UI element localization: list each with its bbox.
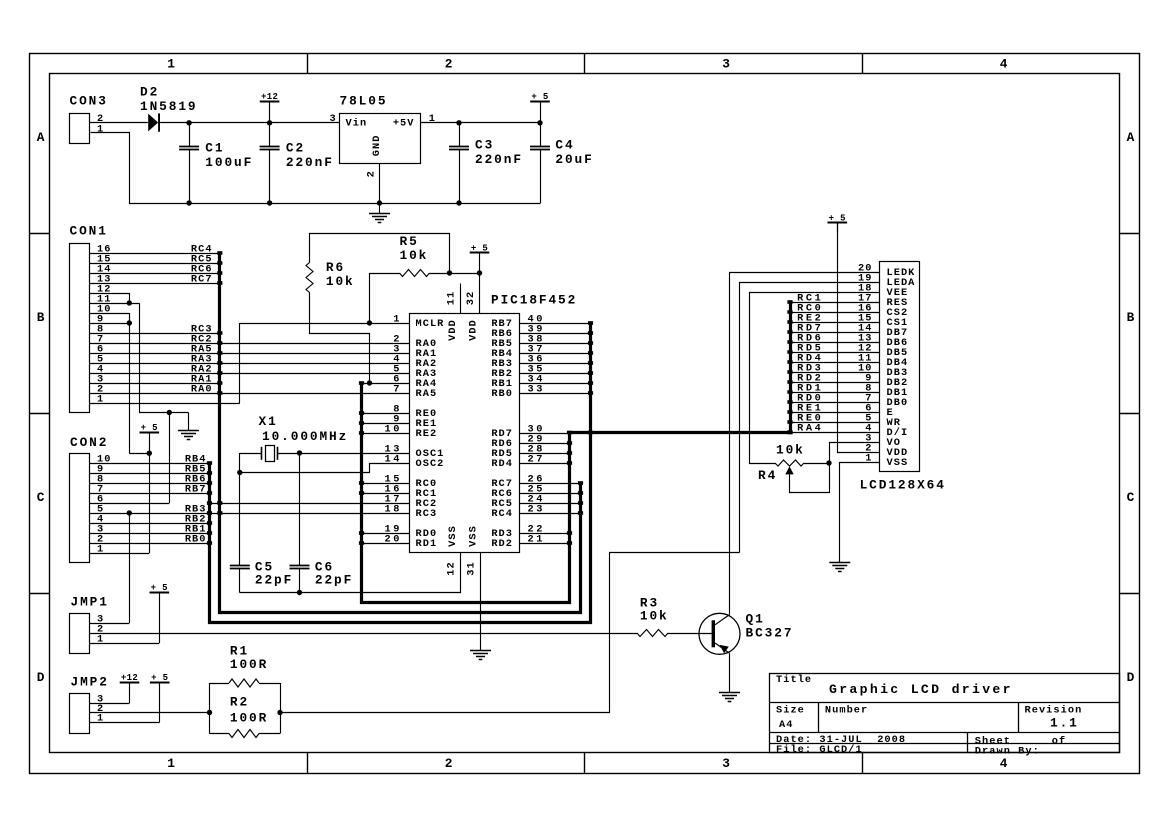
svg-text:C: C [1127, 490, 1137, 505]
svg-text:RC4: RC4 [491, 508, 513, 520]
LCD pin19 LEDA wire down [740, 283, 880, 553]
wire +5 link to VDD pin32 [450, 273, 480, 275]
LCD pin 11 wire from bus [790, 362, 879, 364]
svg-text:LCD128X64: LCD128X64 [860, 477, 946, 492]
bus entry LCD y=352 [787, 350, 792, 354]
bus entry inner-left y=363 [217, 361, 222, 365]
wire OSC2 jog [240, 464, 410, 473]
svg-text:RD1: RD1 [416, 538, 438, 550]
capacitor C1 [189, 123, 191, 146]
svg-text:CON3: CON3 [70, 94, 108, 109]
Q1 collector [715, 615, 730, 625]
LCD pin 5 wire from bus [790, 422, 879, 424]
CON1 pin 7 wire [90, 343, 410, 345]
svg-text:RD4: RD4 [491, 458, 513, 470]
svg-text:1: 1 [429, 113, 436, 125]
CON1 pin 5 wire [90, 363, 410, 365]
PIC RB7..RB0 wires to bus [519, 323, 591, 325]
R4 wiper wire [790, 464, 830, 493]
svg-text:220nF: 220nF [475, 152, 523, 167]
svg-text:12: 12 [446, 561, 458, 575]
svg-text:RB0: RB0 [185, 533, 207, 545]
bus entry inner-left y=383 [217, 381, 222, 385]
svg-text:C3: C3 [475, 138, 494, 153]
svg-text:2: 2 [365, 170, 377, 177]
svg-text:4: 4 [1000, 756, 1010, 771]
junction ground run / CON2 pin6 riser [167, 410, 172, 415]
ground symbol LCD VSS [829, 562, 850, 564]
svg-text:VSS: VSS [887, 457, 909, 469]
bus entry LCD y=402 [787, 400, 792, 404]
wire CON1 pin11+12 to ground run [140, 304, 189, 413]
ground symbol PIC pin31 [470, 650, 491, 652]
svg-text:+ 5: + 5 [531, 92, 548, 102]
CON1 pin 14 wire [90, 273, 220, 275]
PIC RD7 wire to bus corner [519, 433, 570, 435]
bus entry inner-left y=353 [217, 351, 222, 355]
junction C6 top [297, 450, 302, 455]
wire CON2 pin6 up to ground run [169, 413, 171, 504]
CON2 pin 3 wire [90, 533, 210, 535]
svg-text:1: 1 [393, 313, 402, 325]
PIC pin 11 VDD stub [460, 284, 462, 314]
title block line under size row [770, 732, 1120, 734]
wire +5 down to CON2 pin1 [149, 453, 151, 553]
wire VDD pin32 stub [479, 273, 481, 313]
CON1 pin 6 wire [90, 353, 410, 355]
junction C1 top [186, 120, 191, 125]
svg-text:Size: Size [776, 704, 805, 716]
resistor R2 [210, 733, 230, 735]
svg-text:100R: 100R [230, 711, 268, 726]
CON2 pin 4 wire [90, 523, 210, 525]
svg-text:OSC2: OSC2 [416, 458, 445, 470]
svg-text:D: D [1127, 670, 1137, 685]
svg-text:78L05: 78L05 [340, 94, 388, 109]
svg-text:10k: 10k [776, 443, 805, 458]
JMP1 pin3 wire [90, 623, 130, 625]
bus entry LCD y=302 [787, 300, 792, 304]
connector CON3 [70, 114, 90, 144]
title block divider number/revision [1018, 702, 1020, 733]
bus entry inner-left y=513 [217, 511, 222, 515]
capacitor C6 [299, 453, 301, 566]
PIC RD6 RD5 RD4 wires to bus [519, 443, 570, 445]
bus entry bus-A left y=423 [359, 421, 364, 425]
svg-text:RC7: RC7 [191, 273, 213, 285]
svg-text:3: 3 [722, 756, 732, 771]
resistor R6 [306, 263, 313, 293]
bus entry bus-A mid y=443 [567, 441, 572, 445]
bus entry bus-A left y=493 [359, 491, 364, 495]
svg-text:RD2: RD2 [491, 538, 513, 550]
LCD pin20 LEDK wire to Q1 collector [730, 273, 880, 614]
CON2 pin 10 wire [90, 463, 210, 465]
svg-text:C: C [37, 490, 47, 505]
bus entry LCD y=362 [787, 360, 792, 364]
bus entry LCD y=422 [787, 420, 792, 424]
CON1 pin 16 wire [90, 253, 220, 255]
CON2 pin 9 wire [90, 473, 210, 475]
bus entry bus-A left y=543 [359, 541, 364, 545]
title block line under title [770, 702, 1120, 704]
junction R1R2 left [207, 710, 212, 715]
CON1 pin 8 wire [90, 333, 220, 335]
bus entry outer-left y=503 [207, 501, 212, 505]
svg-text:3: 3 [722, 56, 732, 71]
svg-text:VDD: VDD [468, 319, 480, 341]
border column tick x=584.5 top [584, 53, 586, 73]
bus entry outer-left y=523 [207, 521, 212, 525]
border row tick y=413 left [29, 413, 49, 415]
PIC RD0 RD1 wires to bus [362, 533, 410, 535]
svg-text:+5V: +5V [393, 117, 415, 129]
bus entry outer-left y=463 [207, 461, 212, 465]
ground symbol power section [379, 203, 381, 213]
bus entry bus-A left y=533 [359, 531, 364, 535]
bus entry bus-A mid y=463 [567, 461, 572, 465]
svg-text:RB7: RB7 [185, 483, 207, 495]
bus entry RB y=363 [588, 361, 593, 365]
svg-text:JMP1: JMP1 [71, 595, 109, 610]
svg-text:B: B [1127, 310, 1137, 325]
svg-text:Graphic LCD driver: Graphic LCD driver [829, 682, 1013, 697]
wire X1 to OSC1 [278, 453, 410, 455]
border row tick y=233 right [1119, 233, 1139, 235]
svg-text:D2: D2 [140, 85, 159, 100]
svg-text:JMP2: JMP2 [71, 675, 109, 690]
svg-text:10k: 10k [400, 248, 429, 263]
bus entry inner-left y=373 [217, 371, 222, 375]
bus entry inner-left y=333 [217, 331, 222, 335]
svg-text:Vin: Vin [346, 117, 368, 129]
wire CON1 pin1 up to MCLR [239, 323, 241, 403]
svg-text:C4: C4 [555, 138, 574, 153]
junction CON1 pin9/10 [127, 320, 132, 325]
svg-text:RA5: RA5 [416, 388, 438, 400]
bus entry RB y=373 [588, 371, 593, 375]
svg-text:R2: R2 [230, 695, 249, 710]
bus entry LCD y=382 [787, 380, 792, 384]
svg-text:10k: 10k [640, 608, 669, 623]
CON1 pin 9 wire [90, 323, 129, 325]
wire R6 bottom to RA4 [310, 293, 370, 384]
LCD pin3 VO wire [830, 443, 880, 464]
svg-text:VSS: VSS [468, 525, 480, 547]
border column tick x=862 bottom [862, 752, 864, 773]
junction ground rail C2 [267, 200, 272, 205]
R1R2 left link [209, 683, 211, 734]
regulator U1 78L05 [340, 114, 421, 164]
CON1 pin 15 wire [90, 263, 220, 265]
bus entry outer-left y=473 [207, 471, 212, 475]
bus entry bus-A mid y=533 [567, 531, 572, 535]
wire D2 cathode to 78L05 Vin [160, 122, 339, 124]
svg-text:D: D [37, 670, 47, 685]
bus entry RC y=493 [578, 491, 583, 495]
svg-text:+12: +12 [261, 92, 278, 102]
LCD pin18 VEE wire to R4 [750, 293, 880, 464]
resistor R3 [637, 630, 668, 637]
bus entry inner-left y=263 [217, 261, 222, 265]
wire X1 left down to C5 [239, 453, 241, 566]
junction ground rail C3 [456, 200, 461, 205]
junction R6 at RA4 [367, 380, 372, 385]
transistor Q1 BC327 [699, 613, 740, 654]
CON1 pin 3 wire [90, 383, 220, 385]
capacitor C4 [540, 123, 542, 146]
JMP1 pin2 wire to R3 [90, 633, 638, 635]
junction C2 top / +12 rail [267, 120, 272, 125]
svg-text:VDD: VDD [447, 319, 459, 341]
junction R1R2 right [277, 710, 282, 715]
CON1 pin 13 wire [90, 283, 220, 285]
wire CON1 pin12 down to pin11 [129, 293, 131, 303]
junction OSC2 link [237, 470, 242, 475]
Q1 emitter [715, 643, 730, 653]
LCD pin1 VSS wire to ground [840, 463, 880, 563]
svg-text:32: 32 [465, 291, 477, 305]
connector JMP1 [70, 614, 90, 654]
bus entry LCD y=342 [787, 340, 792, 344]
svg-text:C1: C1 [205, 141, 224, 156]
diode D2 [148, 114, 158, 132]
svg-text:RC3: RC3 [416, 508, 438, 520]
junction R5 at MCLR [367, 320, 372, 325]
CON2 pin 5 wire [90, 513, 410, 515]
svg-text:10.000MHz: 10.000MHz [262, 429, 348, 444]
svg-text:CON1: CON1 [70, 224, 108, 239]
wire CON3 pin2 to D2 anode [90, 122, 148, 124]
title block line under date row [770, 743, 1120, 745]
bus entry RB y=333 [588, 331, 593, 335]
svg-text:1N5819: 1N5819 [140, 99, 197, 114]
JMP2 pin3 wire [90, 703, 130, 705]
bus entry bus-A left y=413 [359, 411, 364, 415]
svg-text:10k: 10k [326, 274, 355, 289]
svg-text:Title: Title [776, 674, 812, 686]
junction +5 VDD [477, 270, 482, 275]
bus entry RB y=353 [588, 351, 593, 355]
junction C6 bottom [297, 590, 302, 595]
svg-text:3: 3 [330, 113, 337, 125]
bus entry LCD y=432 [787, 430, 792, 434]
bus entry bus-A mid y=453 [567, 451, 572, 455]
wire RC2 from outer bus to PIC pin17 [210, 503, 410, 505]
svg-text:A: A [37, 130, 47, 145]
LCD pin2 VDD wire to +5 [838, 223, 880, 453]
LCD pin 14 wire from bus [790, 332, 879, 334]
JMP1 pin1 wire [90, 643, 160, 645]
svg-text:PIC18F452: PIC18F452 [491, 292, 577, 307]
CON1 pin 2 wire [90, 393, 410, 395]
LCD pin 16 wire from bus [790, 312, 879, 314]
svg-text:Q1: Q1 [746, 611, 765, 626]
bus RA4 RE RC RD to LCD [362, 303, 791, 603]
svg-text:R4: R4 [758, 468, 777, 483]
svg-text:22pF: 22pF [315, 573, 353, 588]
svg-text:100uF: 100uF [205, 155, 253, 170]
svg-text:CON2: CON2 [70, 435, 108, 450]
svg-text:A: A [1127, 130, 1137, 145]
bus entry bus-A left y=433 [359, 431, 364, 435]
wire CON1 pin10 down to pin9 [129, 313, 131, 323]
wire R1R2 to LEDA riser [281, 553, 740, 713]
bus entry RB y=383 [588, 381, 593, 385]
wire 78L05 GND pin [379, 164, 381, 204]
PIC pin 12 VSS stub to C5 C6 gnd line [240, 553, 461, 593]
wire 78L05 out to C3 C4 +5 [420, 122, 540, 124]
LCD pin 15 wire from bus [790, 322, 879, 324]
wire MCLR from CON1 pin1 to PIC [240, 323, 410, 325]
junction ground rail 78L05 GND [377, 200, 382, 205]
bus entry LCD y=412 [787, 410, 792, 414]
JMP2 pin1 wire [90, 722, 160, 724]
CON1 pin 1 wire [90, 403, 240, 405]
title block divider sheet [967, 733, 969, 753]
PIC RE0 RE1 RE2 wires to bus [362, 413, 410, 415]
capacitor C3 [459, 123, 461, 146]
bus entry LCD y=372 [787, 370, 792, 374]
svg-text:22pF: 22pF [255, 573, 293, 588]
PIC pin 31 VSS stub to ground [480, 552, 482, 650]
wire across to CON2 +5 stem [129, 453, 149, 455]
bus inner-left CON1 signals [220, 254, 581, 613]
LCD pin 4 wire from bus [790, 432, 879, 434]
junction R4 VO [826, 460, 831, 465]
bus entry RB y=323 [588, 321, 593, 325]
svg-text:A4: A4 [779, 719, 793, 731]
JMP2 pin2 wire to R1 R2 pair [90, 712, 210, 714]
svg-text:1: 1 [167, 756, 177, 771]
svg-text:18: 18 [385, 503, 402, 515]
LCD pin 13 wire from bus [790, 342, 879, 344]
svg-text:11: 11 [446, 291, 458, 305]
svg-text:4: 4 [1000, 56, 1010, 71]
CON1 pin 4 wire [90, 373, 410, 375]
bus entry bus-A left y=383 [359, 381, 364, 385]
junction CON1 pin11/12 [127, 300, 132, 305]
bus entry inner-left y=393 [217, 391, 222, 395]
bus entry RC y=513 [578, 511, 583, 515]
resistor R5 [430, 273, 450, 275]
svg-text:1: 1 [167, 56, 177, 71]
bus entry bus-A mid y=543 [567, 541, 572, 545]
border row tick y=413 right [1119, 413, 1139, 415]
border row tick y=233 left [29, 233, 49, 235]
bus outer-left CON2 RB signals [210, 324, 591, 623]
CON2 pin 6 wire [90, 503, 169, 505]
junction ground rail C1 [186, 200, 191, 205]
R4 wiper arrow [785, 466, 793, 474]
LCD pin 6 wire from bus [790, 412, 879, 414]
svg-text:B: B [37, 310, 47, 325]
CON2 pin 8 wire [90, 483, 210, 485]
bus entry RC y=503 [578, 501, 583, 505]
wire R5 left to MCLR [369, 273, 371, 323]
bus entry RC y=483 [578, 481, 583, 485]
crystal X1 [240, 453, 262, 455]
svg-text:X1: X1 [259, 414, 278, 429]
bus entry outer-left y=543 [207, 541, 212, 545]
border row tick y=593 left [29, 593, 49, 595]
CON1 pin 12 wire [90, 293, 129, 295]
svg-text:File: GLCD/1: File: GLCD/1 [776, 744, 863, 756]
connector CON2 [70, 454, 90, 563]
PIC RD3 RD2 wires to bus [519, 533, 570, 535]
bus entry inner-left y=253 [217, 251, 222, 255]
connector CON1 [70, 244, 90, 413]
bus entry outer-left y=513 [207, 511, 212, 515]
bus entry inner-left y=343 [217, 341, 222, 345]
svg-text:RB0: RB0 [491, 388, 513, 400]
bus entry bus-A left y=483 [359, 481, 364, 485]
svg-text:20uF: 20uF [555, 152, 593, 167]
LCD pin 8 wire from bus [790, 392, 879, 394]
connector LCD128X64 [880, 262, 920, 472]
CON2 pin 2 wire [90, 543, 210, 545]
bus crossing [588, 431, 593, 435]
LCD pin 17 wire from bus [790, 302, 879, 304]
bus entry LCD y=312 [787, 310, 792, 314]
CON1 pin 10 wire [90, 313, 129, 315]
svg-text:BC327: BC327 [746, 626, 794, 641]
ground symbol Q1 [719, 692, 740, 694]
bus entry RB y=343 [588, 341, 593, 345]
svg-text:RE2: RE2 [416, 428, 438, 440]
junction R5 right / +5 [447, 270, 452, 275]
LCD pin 7 wire from bus [790, 402, 879, 404]
bus entry inner-left y=273 [217, 271, 222, 275]
wire RB3 down to JMP1 pin3 [129, 513, 131, 623]
bus entry inner-left y=283 [217, 281, 222, 285]
border column tick x=307 bottom [307, 752, 309, 773]
svg-text:100R: 100R [230, 657, 268, 672]
svg-text:of: of [1052, 736, 1066, 748]
R1R2 right link [280, 683, 282, 734]
svg-text:220nF: 220nF [286, 155, 334, 170]
border column tick x=307 top [307, 53, 309, 73]
CON1 pin 11 wire [90, 303, 140, 305]
connector JMP2 [70, 694, 90, 734]
junction C4 top / +5 [537, 120, 542, 125]
bus entry outer-left y=493 [207, 491, 212, 495]
junction C3 top [456, 120, 461, 125]
svg-text:7: 7 [393, 383, 402, 395]
Q1 emitter wire to ground [729, 653, 731, 692]
svg-text:Number: Number [825, 704, 868, 716]
svg-text:R5: R5 [400, 234, 419, 249]
wire CON3 pin1 return to ground rail [91, 133, 541, 204]
capacitor C5 [230, 565, 250, 567]
title block divider size/number [818, 702, 820, 733]
bus entry outer-left y=533 [207, 531, 212, 535]
svg-text:VSS: VSS [447, 525, 459, 547]
svg-text:31: 31 [466, 561, 478, 575]
svg-text:GND: GND [371, 135, 383, 157]
potentiometer R4 10k [775, 460, 804, 466]
LCD pin 10 wire from bus [790, 372, 879, 374]
svg-text:Drawn By:: Drawn By: [975, 745, 1040, 757]
resistor R1 [210, 683, 230, 685]
CON2 pin 1 wire [90, 553, 149, 555]
bus entry LCD y=322 [787, 320, 792, 324]
svg-text:R6: R6 [326, 260, 345, 275]
PIC RC0 RC1 wires to bus [362, 483, 410, 485]
svg-text:1.1: 1.1 [1050, 715, 1079, 730]
capacitor C2 [269, 123, 271, 146]
svg-text:2: 2 [445, 56, 455, 71]
